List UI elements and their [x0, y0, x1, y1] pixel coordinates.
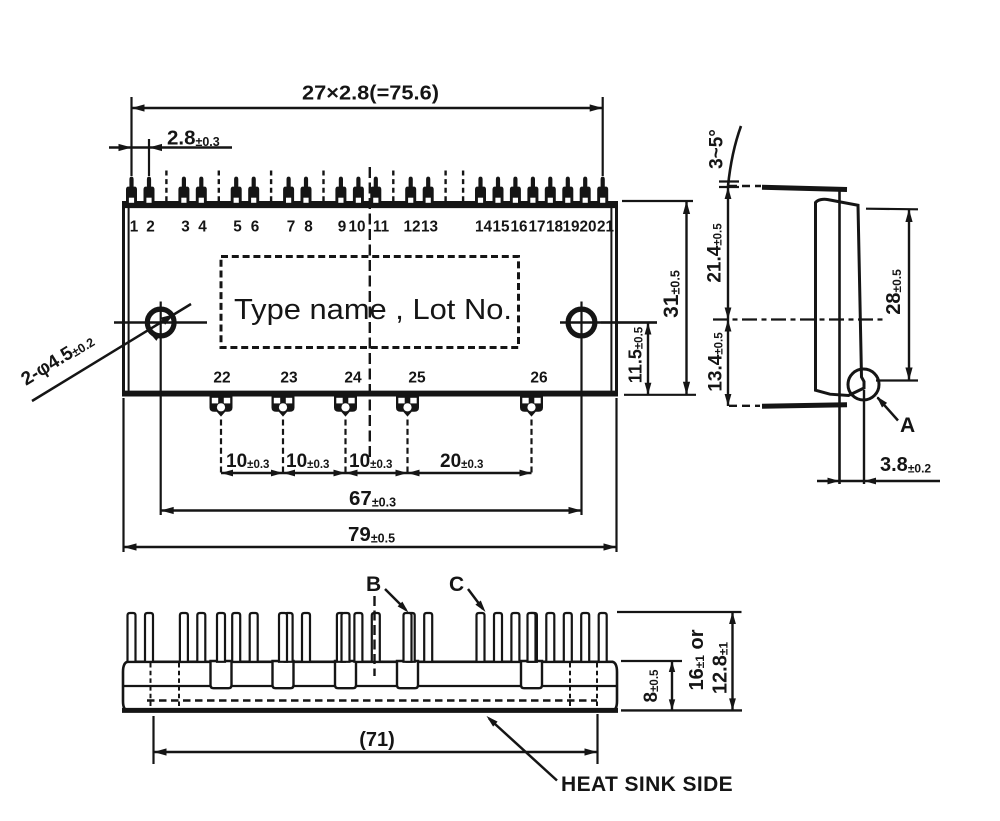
pin 16 (top view) — [510, 177, 521, 204]
pin 9 (top view) — [335, 177, 346, 204]
pin 26 (top view) — [520, 397, 543, 417]
dimension 2.8 +-0.3 — [109, 127, 232, 177]
svg-text:21: 21 — [597, 219, 615, 236]
dimension 79 +-0.5 — [124, 398, 617, 552]
pin 10 (top view) — [353, 177, 364, 204]
pin 21 (top view) — [597, 177, 608, 204]
dimension 16 or 12.8 — [617, 612, 742, 710]
svg-text:12.8±1: 12.8±1 — [710, 642, 732, 695]
bottom view hidden dashed lines — [147, 663, 597, 709]
hole diameter leader 2-phi4.5 — [18, 304, 191, 401]
dimension 28 +-0.5 — [866, 209, 918, 381]
pin 23 (top view) — [272, 397, 295, 417]
dimension 21.4 +-0.5 — [705, 186, 732, 320]
dimension 3.8 +-0.2 — [817, 454, 940, 484]
svg-text:12: 12 — [403, 219, 420, 236]
svg-text:17: 17 — [528, 219, 545, 236]
svg-text:5: 5 — [233, 219, 242, 236]
svg-text:10±0.3: 10±0.3 — [286, 451, 329, 472]
dimension 8 +-0.5 — [621, 661, 682, 710]
svg-text:8: 8 — [304, 219, 313, 236]
side view pin line — [838, 189, 841, 484]
svg-text:20±0.3: 20±0.3 — [440, 451, 483, 472]
svg-text:31±0.5: 31±0.5 — [660, 270, 683, 318]
svg-text:25: 25 — [408, 370, 426, 387]
dimension (71) — [154, 714, 598, 764]
dimension chain 10,10,10,20 — [221, 451, 532, 476]
pin 23 extension dashed line — [282, 420, 284, 474]
svg-text:1: 1 — [130, 219, 139, 236]
svg-text:11: 11 — [373, 219, 390, 236]
svg-text:18: 18 — [546, 219, 564, 236]
svg-text:24: 24 — [344, 370, 362, 387]
dimension 27x2.8 (=75.6) — [132, 83, 603, 177]
pin numbers 1-21 — [130, 219, 615, 236]
svg-text:10±0.3: 10±0.3 — [226, 451, 269, 472]
pin 20 (top view) — [580, 177, 591, 204]
pin 17 (top view) — [527, 177, 538, 204]
pin 26 extension dashed line — [530, 420, 532, 474]
svg-text:19: 19 — [562, 219, 579, 236]
pin 22 extension dashed line — [220, 420, 222, 474]
svg-text:HEAT SINK SIDE: HEAT SINK SIDE — [561, 773, 733, 796]
svg-text:22: 22 — [213, 370, 230, 387]
pin 1 (top view) — [126, 177, 137, 204]
svg-text:11.5±0.5: 11.5±0.5 — [626, 326, 646, 383]
pin 18 (top view) — [545, 177, 556, 204]
dimension 13.4 +-0.5 — [706, 320, 732, 407]
svg-text:2-φ4.5±0.2: 2-φ4.5±0.2 — [18, 330, 98, 390]
pin 13 (top view) — [423, 177, 434, 204]
pin 25 extension dashed line — [406, 420, 408, 474]
pin 15 (top view) — [493, 177, 504, 204]
bottom view centerline — [373, 596, 375, 676]
side view hole centerline — [713, 318, 884, 320]
svg-text:C: C — [449, 573, 464, 596]
HEAT SINK SIDE label with leader — [487, 716, 734, 796]
pin 7 (top view) — [283, 177, 294, 204]
svg-text:15: 15 — [492, 219, 510, 236]
side view heat sink line — [729, 405, 847, 407]
pin 3 (top view) — [178, 177, 189, 204]
svg-text:27×2.8(=75.6): 27×2.8(=75.6) — [302, 83, 439, 105]
svg-text:A: A — [900, 414, 915, 437]
svg-text:28±0.5: 28±0.5 — [883, 269, 905, 315]
svg-text:23: 23 — [280, 370, 298, 387]
svg-text:3~5°: 3~5° — [707, 129, 728, 169]
pin 12 (top view) — [405, 177, 416, 204]
svg-text:13.4±0.5: 13.4±0.5 — [706, 332, 727, 392]
svg-text:16±1 or: 16±1 or — [686, 629, 708, 690]
svg-text:3: 3 — [181, 219, 190, 236]
svg-text:B: B — [366, 573, 381, 596]
svg-text:6: 6 — [251, 219, 260, 236]
svg-text:2.8±0.3: 2.8±0.3 — [167, 127, 220, 150]
svg-text:7: 7 — [287, 219, 296, 236]
svg-text:9: 9 — [338, 219, 347, 236]
svg-text:8±0.5: 8±0.5 — [641, 669, 662, 702]
svg-text:67±0.3: 67±0.3 — [349, 487, 396, 510]
mounting hole right — [560, 302, 657, 516]
svg-text:10: 10 — [348, 219, 365, 236]
dimension 11.5 +-0.5 — [601, 323, 657, 395]
svg-text:(71): (71) — [359, 729, 395, 751]
svg-text:26: 26 — [530, 370, 548, 387]
svg-text:3.8±0.2: 3.8±0.2 — [880, 454, 931, 476]
pin 5 (top view) — [231, 177, 242, 204]
svg-text:4: 4 — [198, 219, 207, 236]
pins (bottom view, front silhouettes) — [128, 613, 607, 662]
svg-text:79±0.5: 79±0.5 — [348, 523, 395, 546]
svg-text:Type name , Lot No.: Type name , Lot No. — [234, 294, 512, 326]
svg-text:14: 14 — [475, 219, 493, 236]
pin 14 (top view) — [475, 177, 486, 204]
label C with leader — [449, 573, 486, 612]
dashed label box — [221, 257, 519, 348]
pin 4 (top view) — [196, 177, 207, 204]
pin 6 (top view) — [248, 177, 259, 204]
pin 25 (top view) — [396, 397, 419, 417]
label B with leader — [366, 573, 409, 613]
side view pin row line — [729, 186, 847, 190]
side view case outline — [816, 199, 865, 395]
svg-text:2: 2 — [146, 219, 155, 236]
svg-text:16: 16 — [510, 219, 527, 236]
unpopulated pin position dashed lines — [166, 171, 463, 203]
pin 22 (top view) — [210, 397, 233, 417]
vertical centerline (top view) — [369, 167, 371, 460]
mounting hole left — [114, 302, 207, 516]
svg-text:13: 13 — [421, 219, 438, 236]
dimension 67 +-0.3 — [161, 487, 582, 514]
pin 24 extension dashed line — [344, 420, 346, 474]
dimension 31 +-0.5 — [622, 201, 696, 395]
bottom view body bar — [122, 662, 618, 711]
module body outline (top view) — [122, 203, 618, 396]
svg-text:20: 20 — [579, 219, 596, 236]
svg-text:21.4±0.5: 21.4±0.5 — [705, 223, 726, 283]
pin 11 (top view) — [370, 177, 381, 204]
detail circle A — [848, 369, 915, 484]
angle indicator 3~5 deg — [707, 126, 742, 187]
pin 2 (top view) — [144, 177, 155, 204]
pin 8 (top view) — [301, 177, 312, 204]
pin 19 (top view) — [562, 177, 573, 204]
pin 24 (top view) — [334, 397, 357, 417]
pin 22-26 shoulders (bottom view) — [211, 661, 543, 688]
